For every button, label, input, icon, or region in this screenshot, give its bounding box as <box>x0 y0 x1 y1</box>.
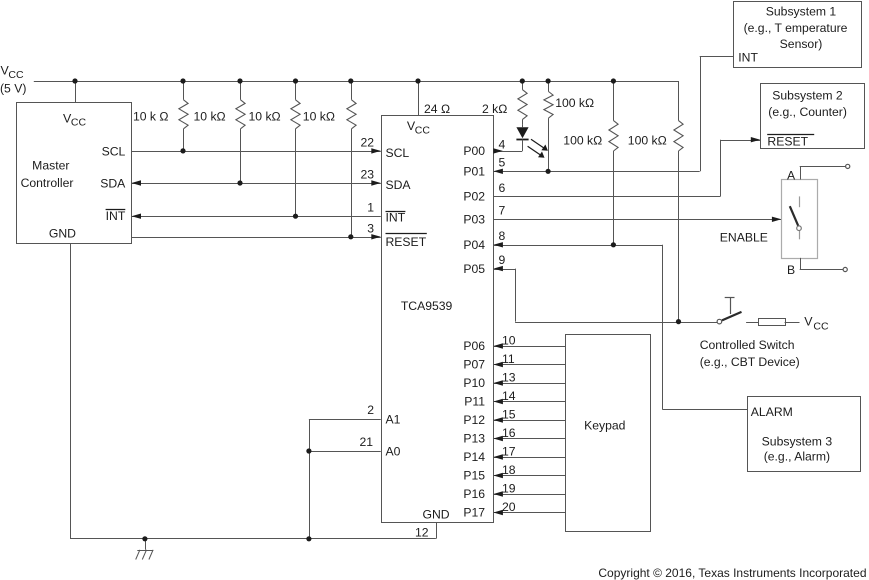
svg-text:P06: P06 <box>463 339 485 353</box>
svg-text:SDA: SDA <box>386 178 412 192</box>
svg-text:11: 11 <box>502 352 515 366</box>
svg-text:10: 10 <box>502 333 516 347</box>
svg-text:SDA: SDA <box>100 177 126 191</box>
svg-text:INT: INT <box>386 211 406 225</box>
svg-text:RESET: RESET <box>386 235 427 249</box>
svg-text:12: 12 <box>415 526 429 540</box>
svg-text:(e.g., T emperature: (e.g., T emperature <box>744 21 848 35</box>
svg-text:21: 21 <box>359 435 373 449</box>
svg-text:16: 16 <box>502 426 516 440</box>
svg-text:23: 23 <box>360 168 374 182</box>
svg-text:Sensor): Sensor) <box>780 37 823 51</box>
svg-text:2: 2 <box>367 403 374 417</box>
svg-text:A0: A0 <box>386 445 401 459</box>
svg-text:6: 6 <box>499 181 506 195</box>
svg-text:19: 19 <box>502 481 516 495</box>
svg-text:P13: P13 <box>463 432 485 446</box>
svg-text:P03: P03 <box>463 213 485 227</box>
svg-text:4: 4 <box>499 137 506 151</box>
svg-text:P17: P17 <box>463 506 485 520</box>
svg-text:GND: GND <box>423 507 450 521</box>
svg-text:P15: P15 <box>463 469 485 483</box>
svg-text:RESET: RESET <box>767 134 808 148</box>
svg-text:B: B <box>787 263 795 277</box>
svg-text:CC: CC <box>8 69 24 81</box>
svg-text:CC: CC <box>813 320 829 332</box>
svg-text:P10: P10 <box>463 376 485 390</box>
svg-text:100 kΩ: 100 kΩ <box>555 96 594 110</box>
svg-text:P00: P00 <box>463 144 485 158</box>
svg-text:P04: P04 <box>463 238 485 252</box>
svg-text:Controlled Switch: Controlled Switch <box>700 338 795 352</box>
svg-text:(e.g., CBT Device): (e.g., CBT Device) <box>700 355 800 369</box>
svg-text:(e.g., Counter): (e.g., Counter) <box>768 105 847 119</box>
svg-text:2 kΩ: 2 kΩ <box>482 102 507 116</box>
svg-text:ALARM: ALARM <box>751 405 793 419</box>
svg-text:20: 20 <box>502 500 516 514</box>
svg-text:10 kΩ: 10 kΩ <box>194 109 226 123</box>
svg-text:P12: P12 <box>463 413 485 427</box>
svg-text:100 kΩ: 100 kΩ <box>563 134 602 148</box>
svg-text:INT: INT <box>738 51 758 65</box>
svg-text:3: 3 <box>367 221 374 235</box>
svg-text:100 kΩ: 100 kΩ <box>628 134 667 148</box>
svg-text:V: V <box>804 315 813 329</box>
svg-text:10 kΩ: 10 kΩ <box>249 109 281 123</box>
svg-text:Copyright © 2016, Texas Instru: Copyright © 2016, Texas Instruments Inco… <box>598 566 866 580</box>
svg-text:TCA9539: TCA9539 <box>401 299 453 313</box>
svg-text:SCL: SCL <box>386 146 410 160</box>
svg-text:18: 18 <box>502 463 516 477</box>
svg-text:10 kΩ: 10 kΩ <box>303 109 335 123</box>
svg-text:8: 8 <box>499 229 506 243</box>
svg-text:14: 14 <box>502 389 516 403</box>
svg-text:P14: P14 <box>463 450 485 464</box>
svg-text:P01: P01 <box>463 165 485 179</box>
svg-text:(e.g., Alarm): (e.g., Alarm) <box>764 450 830 464</box>
svg-text:ENABLE: ENABLE <box>720 231 768 245</box>
svg-text:Keypad: Keypad <box>584 419 625 433</box>
svg-text:P11: P11 <box>464 395 485 409</box>
svg-text:10 k Ω: 10 k Ω <box>133 109 169 123</box>
svg-text:17: 17 <box>502 444 516 458</box>
svg-text:13: 13 <box>502 370 516 384</box>
svg-text:A1: A1 <box>386 413 401 427</box>
svg-text:GND: GND <box>49 226 76 240</box>
svg-text:Controller: Controller <box>21 176 74 190</box>
svg-text:A: A <box>787 168 796 182</box>
svg-text:Master: Master <box>32 159 69 173</box>
svg-text:22: 22 <box>360 135 374 149</box>
svg-text:1: 1 <box>367 201 374 215</box>
svg-text:P16: P16 <box>463 487 485 501</box>
svg-text:P07: P07 <box>463 358 485 372</box>
svg-text:P02: P02 <box>463 190 485 204</box>
svg-text:P05: P05 <box>463 262 485 276</box>
svg-text:5: 5 <box>499 156 506 170</box>
svg-text:7: 7 <box>499 204 506 218</box>
svg-text:Subsystem 1: Subsystem 1 <box>766 5 837 19</box>
svg-text:CC: CC <box>415 125 431 137</box>
svg-text:CC: CC <box>71 117 87 129</box>
svg-text:INT: INT <box>106 209 126 223</box>
svg-text:9: 9 <box>499 253 506 267</box>
svg-text:Subsystem 2: Subsystem 2 <box>772 88 843 102</box>
svg-text:24 Ω: 24 Ω <box>424 102 450 116</box>
svg-text:(5 V): (5 V) <box>0 82 26 96</box>
svg-text:SCL: SCL <box>102 145 126 159</box>
svg-text:Subsystem 3: Subsystem 3 <box>762 435 833 449</box>
svg-text:15: 15 <box>502 407 516 421</box>
